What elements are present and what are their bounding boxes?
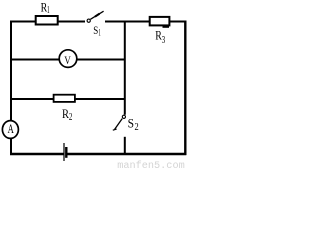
- svg-text:1: 1: [47, 5, 50, 16]
- svg-text:2: 2: [135, 122, 139, 133]
- wire voltmeter branch: [11, 59, 125, 61]
- resistor R3: [150, 17, 170, 28]
- resistor R2: [54, 95, 75, 102]
- resistor R1: [36, 16, 58, 25]
- wire R2 branch: [11, 98, 125, 100]
- svg-text:2: 2: [69, 112, 73, 123]
- ammeter A: [2, 121, 18, 139]
- wire middle vertical (node to S2): [124, 21, 126, 115]
- wire bottom (right of battery): [67, 153, 186, 155]
- wire middle vertical (below S2 to bottom): [124, 137, 126, 154]
- switch S1: [87, 11, 104, 22]
- voltmeter V: [59, 50, 77, 68]
- svg-text:V: V: [64, 53, 71, 67]
- battery (long plate): [63, 143, 65, 161]
- battery (short thick plate): [65, 147, 67, 158]
- wire top (S1 to right border through node and R3): [105, 21, 186, 23]
- wire right border: [184, 21, 186, 156]
- svg-text:1: 1: [98, 27, 100, 37]
- wire left border: [10, 21, 12, 155]
- switch S2: [113, 115, 126, 130]
- svg-text:3: 3: [162, 35, 165, 46]
- wire bottom (left of battery): [10, 153, 64, 155]
- svg-text:S: S: [128, 115, 134, 130]
- wire top (left segment through R1 to S1): [10, 21, 85, 23]
- svg-text:A: A: [8, 122, 14, 136]
- svg-text:manfen5.com: manfen5.com: [117, 160, 184, 170]
